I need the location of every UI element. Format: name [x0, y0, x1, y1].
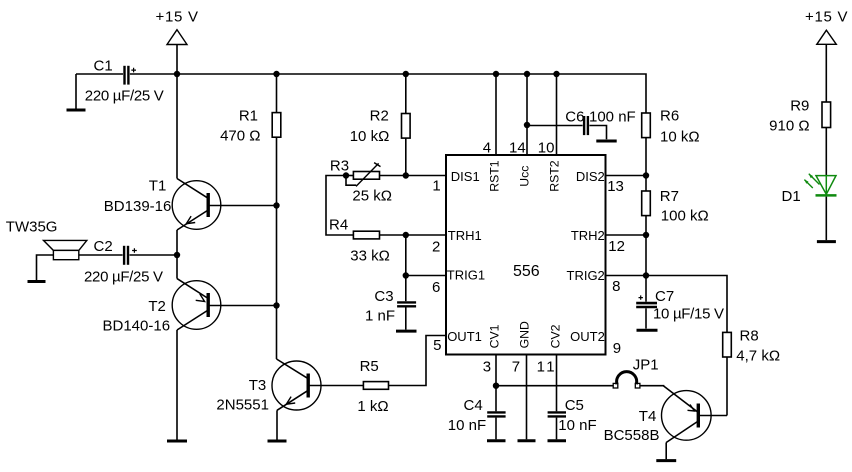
svg-text:OUT2: OUT2: [570, 329, 605, 344]
wire CV1 row to JP1: [496, 385, 613, 387]
junction rail / R1: [273, 71, 279, 77]
wire RST2: [556, 74, 558, 155]
svg-text:10 nF: 10 nF: [448, 417, 486, 434]
capacitor C7: [636, 276, 724, 329]
junction rail / T1 column: [174, 71, 180, 77]
svg-text:7: 7: [512, 359, 520, 376]
capacitor C1: [85, 58, 164, 105]
svg-text:10 nF: 10 nF: [558, 417, 596, 434]
resistor R1: [220, 74, 281, 144]
svg-text:8: 8: [612, 278, 620, 295]
transistor T3 2N5551: [216, 306, 321, 440]
junction TRIG2 / C7 / R8: [643, 272, 649, 278]
svg-text:33 kΩ: 33 kΩ: [350, 247, 390, 264]
svg-text:Ucc: Ucc: [517, 166, 531, 187]
wire JP1 to T4: [640, 385, 664, 387]
svg-text:9: 9: [613, 340, 621, 357]
transistor T2 BD140-16: [103, 255, 221, 440]
junction T1 base / R1 column: [273, 202, 279, 208]
svg-text:RST1: RST1: [487, 160, 501, 192]
junction rail / RST1: [493, 71, 499, 77]
svg-text:910 Ω: 910 Ω: [769, 118, 809, 135]
svg-text:GND: GND: [517, 321, 531, 348]
trimmer R3: [330, 158, 406, 205]
wire T4 base to R8: [698, 415, 727, 417]
wire R1 bottom to T2 base column: [276, 137, 278, 305]
svg-text:100 nF: 100 nF: [589, 108, 636, 125]
resistor R9: [769, 98, 830, 176]
svg-text:220 µF/25 V: 220 µF/25 V: [85, 88, 164, 105]
wire R3 left link down to R4: [326, 176, 353, 236]
jumper JP1: [613, 357, 658, 388]
svg-text:C1: C1: [94, 58, 113, 75]
capacitor C4: [448, 386, 506, 440]
ground at T3: [268, 440, 287, 443]
wire DIS2: [606, 175, 647, 177]
junction rail / RST2: [553, 71, 559, 77]
svg-text:10 µF/15 V: 10 µF/15 V: [653, 306, 724, 323]
svg-text:CV2: CV2: [549, 324, 563, 348]
junction R3 left: [343, 172, 349, 178]
svg-text:11: 11: [537, 359, 555, 376]
svg-text:T3: T3: [249, 377, 267, 394]
svg-text:470 Ω: 470 Ω: [220, 127, 260, 144]
wire GND pin: [526, 355, 528, 440]
resistor R4: [329, 216, 406, 264]
power +15 V right: [805, 9, 848, 102]
svg-text:CV1: CV1: [488, 324, 502, 348]
svg-text:R5: R5: [360, 358, 379, 375]
junction T2 base / R1 column: [273, 302, 279, 308]
svg-text:BC558B: BC558B: [604, 427, 660, 444]
svg-text:13: 13: [607, 178, 624, 195]
svg-text:T4: T4: [639, 408, 657, 425]
svg-text:T2: T2: [148, 298, 166, 315]
svg-text:6: 6: [432, 279, 440, 296]
svg-text:TW35G: TW35G: [6, 219, 58, 236]
wire top rail left of C1: [76, 73, 123, 75]
transistor T1 BD139-16: [104, 74, 221, 255]
junction rail / Ucc: [524, 71, 530, 77]
wire T3 base to R5: [308, 385, 363, 387]
svg-text:OUT1: OUT1: [447, 329, 482, 344]
ground at C7: [637, 329, 658, 332]
svg-text:1: 1: [432, 178, 440, 195]
junction Ucc / C6: [524, 122, 530, 128]
svg-text:C2: C2: [94, 238, 113, 255]
svg-text:10 kΩ: 10 kΩ: [350, 128, 390, 145]
wire speaker to ground: [37, 255, 54, 280]
svg-text:R3: R3: [330, 158, 349, 175]
junction C2 / emitter column: [174, 252, 180, 258]
junction DIS2 / R6: [643, 172, 649, 178]
resistor R8: [723, 328, 780, 416]
wire TRIG1: [406, 275, 446, 277]
ground at C1: [67, 74, 86, 110]
capacitor C2: [84, 238, 163, 285]
svg-text:10: 10: [538, 140, 555, 157]
svg-text:T1: T1: [149, 177, 167, 194]
svg-text:C7: C7: [655, 288, 674, 305]
svg-text:JP1: JP1: [633, 357, 659, 374]
svg-text:TRIG2: TRIG2: [567, 268, 605, 283]
junction rail / R2: [403, 71, 409, 77]
svg-text:220 µF/25 V: 220 µF/25 V: [84, 268, 163, 285]
power +15 V left: [156, 8, 199, 74]
svg-text:3: 3: [483, 359, 491, 376]
svg-text:2N5551: 2N5551: [216, 396, 269, 413]
svg-text:DIS1: DIS1: [451, 169, 480, 184]
wire C2 to T1/T2 column: [130, 254, 178, 256]
wire CV1: [495, 355, 497, 386]
svg-text:4,7 kΩ: 4,7 kΩ: [736, 347, 780, 364]
ground at C6: [596, 140, 616, 143]
wire T2 base: [208, 305, 276, 307]
ground at C3: [396, 330, 417, 333]
resistor R5: [357, 358, 388, 415]
resistor R2: [350, 74, 410, 176]
svg-text:RST2: RST2: [548, 160, 562, 192]
wire TRIG2: [606, 275, 647, 277]
svg-text:10 kΩ: 10 kΩ: [660, 128, 700, 145]
svg-text:R6: R6: [660, 107, 679, 124]
svg-text:12: 12: [608, 238, 625, 255]
svg-text:14: 14: [509, 140, 526, 157]
svg-text:R9: R9: [790, 98, 809, 115]
junction TRIG1/C3: [403, 272, 409, 278]
svg-text:TRH1: TRH1: [448, 228, 482, 243]
resistor R6: [642, 107, 700, 191]
junction CV1 / C4 / JP1 row: [493, 383, 499, 389]
wire R5 to OUT1: [389, 336, 447, 386]
ground at T4: [656, 459, 676, 462]
IC U1 556: [446, 155, 606, 355]
svg-text:R2: R2: [370, 107, 389, 124]
ground at T2: [167, 440, 187, 443]
wire TRH2: [606, 234, 647, 236]
svg-text:TRIG1: TRIG1: [447, 268, 485, 283]
svg-text:R4: R4: [329, 216, 348, 233]
svg-text:BD139-16: BD139-16: [104, 198, 172, 215]
svg-text:556: 556: [513, 263, 540, 280]
capacitor C3: [365, 276, 416, 330]
wire D1 to ground: [825, 197, 827, 241]
wire speaker to C2: [79, 254, 123, 256]
junction R4/TRH1: [403, 232, 409, 238]
svg-text:C6: C6: [565, 109, 584, 126]
svg-text:C3: C3: [374, 288, 393, 305]
svg-text:1 kΩ: 1 kΩ: [357, 398, 388, 415]
ground at D1: [817, 240, 836, 243]
ground at C5: [548, 439, 567, 442]
svg-text:+15 V: +15 V: [805, 9, 848, 26]
svg-text:C5: C5: [565, 397, 584, 414]
transistor T4 BC558B: [604, 386, 712, 460]
svg-text:25 kΩ: 25 kΩ: [352, 188, 392, 205]
LED D1: [782, 174, 837, 205]
svg-text:C4: C4: [464, 397, 483, 414]
svg-text:2: 2: [432, 239, 440, 256]
ground at GND pin: [518, 439, 536, 442]
wire Ucc to C6: [527, 125, 583, 127]
junction R3/R2/DIS1: [403, 172, 409, 178]
ground at C4: [487, 439, 506, 442]
ground at speaker: [28, 280, 46, 283]
resistor R7: [642, 188, 709, 276]
speaker TW35G: [6, 219, 87, 260]
svg-text:+15 V: +15 V: [156, 8, 199, 25]
svg-text:TRH2: TRH2: [571, 228, 605, 243]
wire TRH1: [406, 234, 446, 236]
wire TRIG2 to R8: [646, 276, 727, 333]
capacitor C6: [565, 108, 635, 139]
svg-text:R1: R1: [239, 107, 258, 124]
svg-text:5: 5: [433, 337, 441, 354]
wire top rail: [130, 74, 646, 113]
svg-text:R8: R8: [740, 328, 759, 345]
svg-text:BD140-16: BD140-16: [103, 317, 171, 334]
wire DIS1: [406, 175, 446, 177]
svg-text:DIS2: DIS2: [576, 169, 605, 184]
junction TRH2 / R7: [643, 232, 649, 238]
wire Ucc: [526, 74, 528, 155]
capacitor C5: [548, 355, 597, 440]
wire TRH1 to TRIG1 column: [405, 235, 407, 276]
svg-text:4: 4: [483, 140, 491, 157]
svg-text:1 nF: 1 nF: [365, 308, 395, 325]
wire T1 base: [208, 205, 276, 207]
svg-text:D1: D1: [782, 188, 801, 205]
svg-text:100 kΩ: 100 kΩ: [661, 208, 709, 225]
wire RST1: [495, 74, 497, 155]
svg-text:R7: R7: [660, 188, 679, 205]
